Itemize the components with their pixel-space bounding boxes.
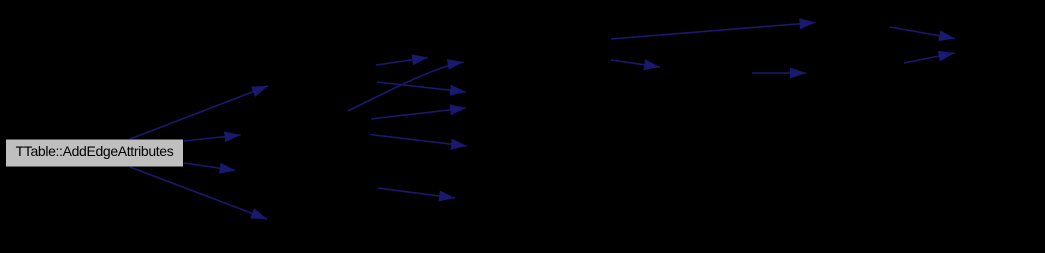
edge M3 (377,82)-(466,92) (377, 82, 466, 92)
edge M6 (370,134.5)-(467,146) (370, 135, 467, 147)
edge R3 (752,73)-(806,73) (752, 72, 806, 74)
edge E3 from node right to (234,170) (184, 163, 236, 171)
edge R1 (611,39)-(817,23) (611, 23, 816, 40)
edge E4 from node bottom to (266,219) (130, 167, 267, 219)
edge F1 (890,27)-(955,38.5) (890, 27, 955, 39)
edge M5 (378,188)-(455,198) (378, 188, 455, 198)
edge F2 (904,63)-(955,54) (904, 53, 955, 63)
edge E2 from node right to (238,135) (184, 135, 241, 141)
edge E1 from node top to (268,86) (130, 86, 268, 139)
edge M1 (376,65)-(428,57.5) (376, 58, 428, 66)
edge M2 curved (348,111)-(465,61.5) (348, 62, 464, 111)
svg-text:TTable::AddEdgeAttributes: TTable::AddEdgeAttributes (16, 143, 174, 159)
edge M4 (371,119)-(465,107) (371, 108, 466, 119)
edge R2 (611,60)-(660,67) (611, 60, 660, 67)
node TTable::AddEdgeAttributes (6, 140, 183, 167)
